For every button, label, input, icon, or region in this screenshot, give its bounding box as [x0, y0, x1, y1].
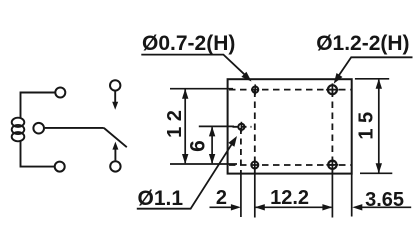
- svg-text:12: 12: [164, 105, 186, 138]
- svg-text:12.2: 12.2: [270, 187, 309, 209]
- svg-text:3.65: 3.65: [365, 189, 404, 211]
- wire coil pin1 to coil top: [21, 93, 55, 119]
- leader for Ø1.1 hole: [137, 136, 237, 209]
- common pin COM: [33, 123, 44, 134]
- extension line bottom hole row (left): [170, 163, 237, 165]
- extension line below board: right edge: [351, 174, 353, 217]
- NO contact arrow (up): [114, 148, 116, 161]
- hole H4 bottom-right (Ø1.2): [326, 159, 338, 171]
- leader for Ø0.7 holes: [141, 55, 251, 82]
- wire coil bottom to pin 2: [21, 141, 55, 167]
- centerline left hole column (dashed): [254, 91, 256, 174]
- dimension line 12 (vertical): [182, 89, 188, 164]
- centerline right hole column (dashed): [331, 91, 333, 174]
- svg-text:Ø1.1: Ø1.1: [138, 187, 184, 210]
- dimension line 6 (vertical): [209, 126, 215, 164]
- svg-text:Ø0.7-2(H): Ø0.7-2(H): [142, 32, 235, 55]
- extension line small hole row (left): [199, 125, 234, 127]
- leader for Ø1.2 holes: [334, 57, 413, 84]
- hole H2 top-right (Ø1.2): [326, 83, 339, 96]
- dimension line 3.65 (horizontal, arrow outside): [352, 204, 411, 210]
- svg-text:2: 2: [216, 187, 227, 209]
- PCB board outline: [228, 79, 352, 173]
- extension line below board: left hole column: [254, 174, 256, 218]
- centerline small hole row (short dashes): [233, 126, 252, 128]
- hole H5 center-left (Ø1.1): [238, 122, 244, 132]
- svg-text:Ø1.2-2(H): Ø1.2-2(H): [316, 32, 409, 55]
- switch blade (movable contact): [104, 128, 127, 147]
- centerline bottom hole row (dashed): [229, 164, 351, 166]
- NC contact arrow (down): [114, 91, 116, 103]
- centerline top hole row (dashed): [229, 89, 351, 91]
- extension line below board: small hole column: [240, 174, 242, 217]
- svg-text:6: 6: [186, 140, 209, 152]
- hole H3 bottom-left (Ø0.7): [251, 160, 258, 171]
- svg-text:15: 15: [355, 106, 377, 139]
- extension line board bottom (right): [360, 172, 392, 174]
- dimension line 15 (vertical): [376, 79, 382, 174]
- extension line top hole row (left): [170, 88, 233, 90]
- wire COM to switch blade: [45, 127, 104, 129]
- NC contact pin (top-right terminal): [110, 80, 120, 90]
- relay coil pin 1 (top-left terminal): [55, 88, 65, 98]
- centerline small hole column (dashed): [240, 128, 242, 174]
- NO contact pin (bottom-right terminal): [110, 161, 120, 171]
- coil L1 (3 loops): [12, 118, 25, 142]
- hole H1 top-left (Ø0.7): [252, 84, 258, 94]
- dimension line 2 (horizontal, arrows outside): [210, 204, 241, 210]
- extension line board top (right): [355, 78, 389, 80]
- dimension line 12.2 (horizontal): [255, 204, 333, 210]
- extension line below board: right hole column: [331, 174, 333, 218]
- relay coil pin 2 (bottom-left terminal): [55, 162, 65, 172]
